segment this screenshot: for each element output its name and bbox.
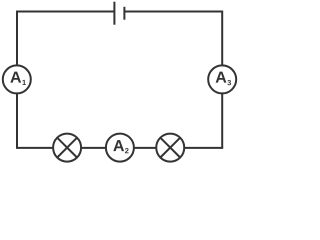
- battery cell: long (positive) plate: [113, 2, 115, 25]
- ammeter A1: [3, 65, 31, 93]
- wire: left vertical branch: [16, 11, 18, 148]
- wire: bottom segment: [16, 147, 223, 149]
- wire: right vertical branch: [221, 11, 223, 148]
- battery cell: short (negative) plate: [123, 7, 125, 20]
- lamp L2: [156, 134, 184, 162]
- ammeter A3: [208, 65, 236, 93]
- wire: top-right segment from battery to corner: [124, 11, 222, 13]
- ammeter A2: [106, 134, 134, 162]
- wire: top-left segment from corner to battery: [17, 11, 114, 13]
- lamp L1: [53, 134, 81, 162]
